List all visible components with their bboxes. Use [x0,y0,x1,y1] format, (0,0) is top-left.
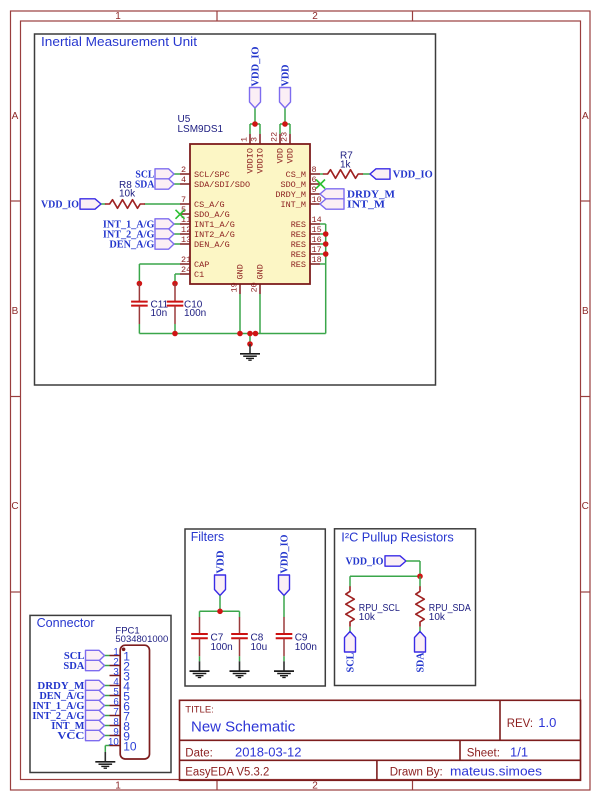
svg-text:VDD_IO: VDD_IO [249,46,261,86]
svg-text:10: 10 [123,740,137,754]
svg-text:9: 9 [312,185,317,195]
svg-text:VDD: VDD [214,550,226,573]
svg-text:SDA: SDA [63,660,84,672]
svg-text:INT1_A/G: INT1_A/G [194,220,235,230]
svg-text:SCL/SPC: SCL/SPC [194,170,230,180]
svg-text:VDD: VDD [279,64,291,86]
svg-text:20: 20 [250,282,260,292]
svg-text:INT2_A/G: INT2_A/G [194,230,235,240]
svg-text:VDDIO: VDDIO [256,148,266,174]
svg-text:A: A [582,111,589,122]
svg-text:INT_M: INT_M [347,198,386,210]
svg-text:1.0: 1.0 [538,715,556,730]
svg-text:VDD_IO: VDD_IO [278,534,290,573]
svg-text:12: 12 [181,225,191,235]
svg-text:VDD: VDD [286,148,296,163]
svg-text:RES: RES [291,220,306,230]
svg-text:100n: 100n [211,642,233,653]
svg-text:10k: 10k [119,189,136,200]
svg-text:CS_A/G: CS_A/G [194,200,225,210]
svg-text:RES: RES [291,230,306,240]
svg-text:C: C [582,501,589,512]
svg-text:10k: 10k [359,612,376,623]
svg-text:3: 3 [250,137,260,142]
svg-text:1: 1 [115,11,121,22]
svg-text:LSM9DS1: LSM9DS1 [178,124,224,135]
svg-text:2018-03-12: 2018-03-12 [235,745,302,760]
svg-text:10: 10 [108,737,119,748]
svg-text:GND: GND [236,264,246,279]
svg-text:13: 13 [181,235,191,245]
svg-text:RES: RES [291,240,306,250]
svg-text:Inertial Measurement Unit: Inertial Measurement Unit [41,34,197,49]
svg-text:SDO_M: SDO_M [280,180,306,190]
svg-text:19: 19 [230,282,240,292]
svg-text:CS_M: CS_M [286,170,306,180]
svg-text:VDD_IO: VDD_IO [41,198,79,210]
svg-text:VCC: VCC [57,730,84,742]
svg-text:4: 4 [181,175,186,185]
svg-text:100n: 100n [184,308,206,319]
svg-text:REV:: REV: [507,718,533,730]
svg-text:Drawn By:: Drawn By: [390,767,443,779]
svg-text:C: C [11,501,18,512]
svg-text:INT_M: INT_M [280,200,306,210]
svg-text:10n: 10n [151,308,168,319]
svg-text:RES: RES [291,250,306,260]
svg-text:21: 21 [181,255,191,265]
svg-text:1: 1 [240,137,250,142]
svg-text:DEN_A/G: DEN_A/G [109,238,154,250]
svg-text:TITLE:: TITLE: [185,705,214,716]
svg-text:1: 1 [115,781,121,792]
svg-text:VDDIO: VDDIO [246,148,256,174]
svg-text:22: 22 [270,132,280,142]
svg-text:10u: 10u [251,642,268,653]
svg-text:8: 8 [312,165,317,175]
svg-text:GND: GND [256,264,266,279]
svg-text:23: 23 [280,132,290,142]
svg-text:1/1: 1/1 [510,745,528,760]
svg-text:1k: 1k [340,159,352,170]
svg-text:VDD_IO: VDD_IO [393,168,433,180]
svg-text:2: 2 [181,165,186,175]
svg-text:Filters: Filters [191,529,225,544]
svg-text:VDD_IO: VDD_IO [346,555,384,567]
svg-text:C1: C1 [194,270,204,280]
svg-text:Connector: Connector [37,615,96,630]
svg-text:DEN_A/G: DEN_A/G [194,240,230,250]
svg-text:B: B [582,306,589,317]
svg-text:mateus.simoes: mateus.simoes [450,764,543,779]
svg-text:7: 7 [181,195,186,205]
svg-text:2: 2 [312,11,318,22]
svg-text:A: A [12,111,19,122]
svg-text:5034801000: 5034801000 [115,634,168,645]
svg-text:VDD: VDD [276,148,286,163]
svg-text:RES: RES [291,260,306,270]
svg-text:10k: 10k [429,612,446,623]
svg-text:SDO_A/G: SDO_A/G [194,210,230,220]
svg-text:New Schematic: New Schematic [191,719,296,736]
svg-text:SDA/SDI/SDO: SDA/SDI/SDO [194,180,250,190]
svg-text:2: 2 [312,781,318,792]
svg-text:B: B [12,306,19,317]
svg-text:SDA: SDA [135,178,155,190]
svg-text:Sheet:: Sheet: [467,748,500,760]
svg-text:24: 24 [181,265,191,275]
svg-text:I²C Pullup Resistors: I²C Pullup Resistors [341,529,454,544]
svg-text:Date:: Date: [185,748,213,760]
svg-text:DRDY_M: DRDY_M [275,190,306,200]
svg-text:SDA: SDA [414,652,426,672]
svg-text:EasyEDA V5.3.2: EasyEDA V5.3.2 [185,767,269,779]
svg-text:CAP: CAP [194,260,209,270]
svg-text:100n: 100n [295,642,317,653]
svg-text:SCL: SCL [344,653,356,673]
